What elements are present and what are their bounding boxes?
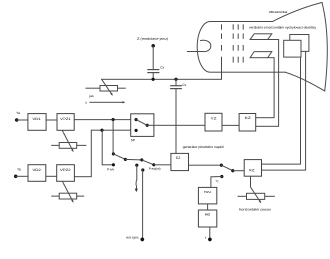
terminal ext sync: [126, 236, 144, 242]
wire X plate far to XZ: [262, 51, 306, 170]
svg-text:VPZ1: VPZ1: [60, 117, 71, 121]
wire upper plate to KZ: [256, 40, 279, 127]
wire contact to HPZ: [211, 177, 222, 189]
svg-text:VD1: VD1: [32, 117, 41, 121]
switch xy arm: [221, 165, 232, 171]
block HD: [198, 210, 216, 227]
brightness bus wire: [102, 78, 222, 80]
wire Z terminal to Cv1: [152, 46, 154, 70]
svg-text:HPZ: HPZ: [204, 190, 212, 194]
CRT obrazovka outline: [197, 3, 327, 92]
switch P e/v contact B wire: [102, 130, 113, 165]
wire lower plate to KZ: [256, 58, 274, 118]
terminal Yb: [14, 168, 21, 179]
swing indicator arrow: [135, 165, 138, 192]
anode electrode dashed column 4: [242, 25, 244, 62]
svg-text:XZ: XZ: [249, 168, 255, 172]
svg-text:HD: HD: [205, 213, 211, 217]
terminal x: [205, 235, 212, 241]
switch SP box: [131, 114, 154, 142]
switch xy contact ext X: [220, 175, 223, 178]
block HPZ: [198, 187, 216, 204]
wire SP to YZ: [147, 124, 205, 126]
node bus-Z junction: [151, 78, 154, 81]
svg-text:u: u: [85, 100, 87, 104]
switch xy pivot: [231, 169, 234, 172]
block YZ: [205, 113, 222, 131]
svg-text:Cv: Cv: [182, 83, 186, 87]
switch P ext arm: [142, 160, 154, 165]
wire VD1 to VPZ1: [46, 119, 57, 121]
node sync A tap: [111, 118, 114, 121]
wire Ya to VD1: [17, 119, 28, 121]
block CZ casova zakladna: [171, 153, 189, 170]
svg-text:ext sync: ext sync: [126, 236, 139, 240]
svg-text:Cv: Cv: [160, 65, 164, 69]
wire pivot to XZ: [233, 170, 244, 172]
X deflection plate far: [290, 35, 309, 52]
potentiometer jas: [86, 79, 125, 98]
switch xy contact time: [220, 164, 223, 167]
svg-text:generátor pilovitého napětí: generátor pilovitého napětí: [183, 145, 224, 149]
svg-text:P ext(int): P ext(int): [149, 167, 161, 171]
svg-text:Ya: Ya: [16, 111, 20, 115]
switch P e/v contact A: [112, 152, 115, 155]
wire X plate near to XZ: [262, 57, 301, 164]
potentiometer gain 2: [52, 182, 84, 203]
switch P ext contact: [140, 158, 143, 161]
svg-text:Z (modulace jasu): Z (modulace jasu): [137, 37, 168, 41]
node bus-Cv2 junction: [174, 78, 177, 81]
cathode lead wire: [187, 51, 202, 53]
svg-text:VPZ2: VPZ2: [60, 168, 71, 172]
cathode heater: [201, 40, 211, 51]
svg-text:ČZ: ČZ: [176, 155, 181, 160]
svg-text:Yy: Yy: [216, 179, 220, 183]
capacitor Cv2: [171, 79, 187, 88]
ext sync riser: [141, 168, 144, 171]
svg-text:VD2: VD2: [32, 168, 41, 172]
riser internal sync A: [112, 120, 114, 154]
wire P ext pivot to CZ: [154, 164, 171, 166]
switch P e/v pivot: [124, 158, 127, 161]
wire VPZ1 to SP: [74, 119, 136, 121]
terminal Ya: [15, 111, 20, 122]
wire YZ to KZ: [222, 124, 239, 126]
Y deflection plate upper: [250, 34, 272, 40]
svg-text:P e/v: P e/v: [107, 168, 114, 172]
wire Cv1 to bus: [152, 73, 154, 80]
wire HD to x terminal: [209, 227, 211, 239]
wire VD2 to VPZ2: [46, 175, 57, 177]
wire HPZ to HD: [207, 204, 209, 210]
switch P e/v arm: [113, 154, 125, 160]
block VPZ1: [57, 114, 74, 131]
wire CZ to switch xy: [189, 164, 222, 166]
voltage arrow u: [85, 100, 125, 104]
svg-text:vertikální a horizontální vych: vertikální a horizontální vychylovací de…: [249, 26, 316, 30]
X deflection plate near: [284, 40, 301, 57]
potentiometer horizontalni posuv: [238, 193, 274, 211]
svg-text:Yb: Yb: [17, 168, 21, 172]
svg-text:YZ: YZ: [211, 116, 217, 120]
block XZ: [244, 160, 261, 177]
swing indicator contact: [135, 164, 138, 167]
svg-text:SP: SP: [131, 138, 135, 142]
svg-text:jas: jas: [88, 94, 94, 98]
switch P ext pivot: [152, 163, 155, 166]
svg-text:obrazovka: obrazovka: [269, 10, 288, 14]
svg-text:x: x: [205, 235, 207, 239]
grid electrode G1 dashed column: [221, 25, 223, 80]
potentiometer gain 1: [52, 131, 86, 152]
block VD2: [28, 165, 46, 182]
capacitor Cv1: [148, 65, 165, 72]
anode electrode dashed column 2: [232, 25, 234, 62]
block VPZ2: [57, 165, 75, 182]
anode electrode dashed column 3: [237, 25, 239, 62]
wire XZ wiper to posuv pot: [251, 176, 261, 202]
wire VPZ2 riser to SP lower contact: [74, 130, 136, 177]
terminal Z modulace jasu: [137, 37, 168, 48]
Y deflection plate lower: [250, 52, 272, 58]
wire pivot to switch ext: [125, 158, 141, 161]
wire Yb to VD2: [16, 175, 28, 177]
block KZ: [239, 114, 256, 132]
node channel B tap: [100, 129, 103, 132]
wire Cv2 to CZ block: [175, 89, 177, 154]
svg-text:KZ: KZ: [245, 116, 251, 120]
block VD1: [28, 114, 46, 131]
svg-text:horizontální posuv: horizontální posuv: [239, 207, 272, 211]
